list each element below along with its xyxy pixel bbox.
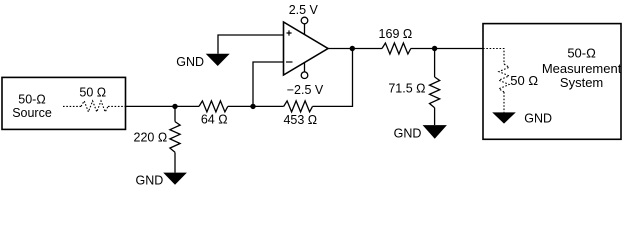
svg-text:2.5 V: 2.5 V xyxy=(289,3,319,17)
svg-text:50 Ω: 50 Ω xyxy=(510,73,538,88)
svg-text:50-Ω: 50-Ω xyxy=(18,93,45,107)
svg-text:Source: Source xyxy=(12,106,52,120)
svg-text:50 Ω: 50 Ω xyxy=(79,86,106,100)
svg-text:64 Ω: 64 Ω xyxy=(201,113,228,127)
svg-text:Measurement: Measurement xyxy=(542,61,622,76)
svg-text:GND: GND xyxy=(176,55,204,69)
svg-text:50-Ω: 50-Ω xyxy=(567,45,596,60)
svg-text:GND: GND xyxy=(136,173,164,187)
svg-text:−2.5 V: −2.5 V xyxy=(287,83,324,97)
svg-text:220 Ω: 220 Ω xyxy=(134,131,168,145)
svg-text:System: System xyxy=(560,75,603,90)
svg-text:453 Ω: 453 Ω xyxy=(283,113,317,127)
svg-text:71.5 Ω: 71.5 Ω xyxy=(388,81,425,95)
svg-text:GND: GND xyxy=(394,126,422,140)
svg-text:GND: GND xyxy=(524,111,552,125)
svg-text:169 Ω: 169 Ω xyxy=(379,27,413,41)
